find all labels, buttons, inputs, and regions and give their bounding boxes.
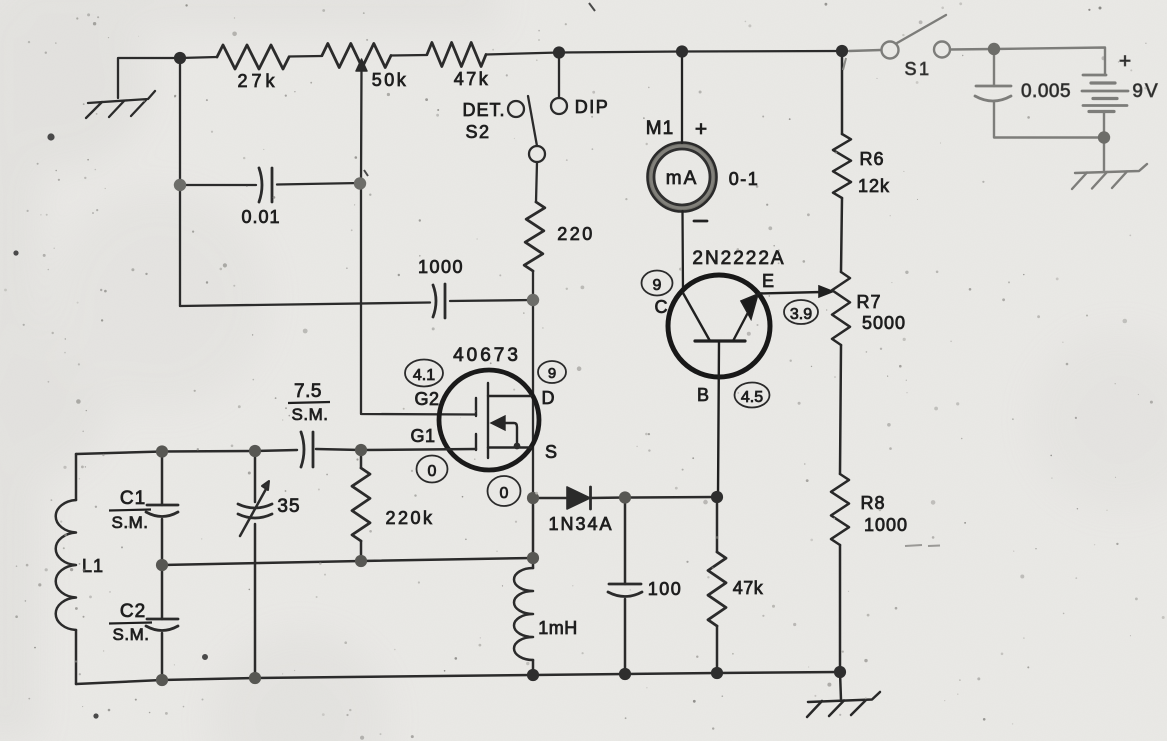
svg-text:220k: 220k [385,508,434,528]
svg-text:DIP: DIP [575,97,610,117]
svg-text:0: 0 [428,463,437,480]
svg-text:S: S [545,442,557,462]
svg-text:3.9: 3.9 [790,306,812,323]
svg-text:1mH: 1mH [538,618,578,638]
svg-text:9V: 9V [1132,81,1159,102]
svg-text:1000: 1000 [864,515,908,535]
svg-text:0-1: 0-1 [729,169,760,189]
svg-text:100: 100 [648,579,683,599]
svg-text:47k: 47k [733,578,764,598]
svg-text:S2: S2 [465,122,490,142]
svg-text:220: 220 [557,224,595,244]
svg-text:1N34A: 1N34A [548,514,613,534]
svg-text:B: B [697,385,709,405]
svg-text:G1: G1 [410,426,435,446]
svg-text:C: C [655,297,668,317]
svg-text:7.5: 7.5 [294,381,322,402]
svg-text:4.5: 4.5 [741,389,763,406]
svg-text:DET.: DET. [462,100,505,120]
svg-text:12k: 12k [858,176,890,196]
svg-text:S1: S1 [904,59,931,79]
svg-text:G2: G2 [414,389,439,409]
svg-text:mA: mA [666,168,699,189]
svg-text:5000: 5000 [862,313,906,333]
svg-text:4.1: 4.1 [413,367,435,384]
svg-text:0.01: 0.01 [241,207,280,227]
svg-text:S.M.: S.M. [112,513,149,532]
svg-text:47k: 47k [454,69,491,89]
svg-text:0: 0 [500,485,509,502]
svg-text:2N2222A: 2N2222A [692,248,785,269]
svg-text:D: D [542,388,555,408]
svg-text:1000: 1000 [418,257,464,277]
svg-text:+: + [695,118,707,141]
svg-text:S.M.: S.M. [292,405,329,424]
svg-text:R8: R8 [860,493,885,513]
svg-text:+: + [1119,50,1131,73]
svg-text:27k: 27k [237,71,278,91]
svg-text:35: 35 [277,496,300,517]
svg-text:C1: C1 [120,488,146,509]
svg-text:9: 9 [548,365,556,382]
svg-text:0.005: 0.005 [1021,81,1071,102]
svg-text:M1: M1 [646,118,674,139]
svg-text:C2: C2 [120,601,146,622]
svg-text:S.M.: S.M. [113,625,150,644]
svg-text:R6: R6 [859,149,884,169]
svg-text:9: 9 [653,277,662,294]
svg-text:L1: L1 [82,556,104,576]
svg-text:50k: 50k [372,70,409,90]
svg-text:E: E [762,271,774,291]
svg-text:40673: 40673 [453,345,521,366]
svg-text:R7: R7 [856,292,881,312]
